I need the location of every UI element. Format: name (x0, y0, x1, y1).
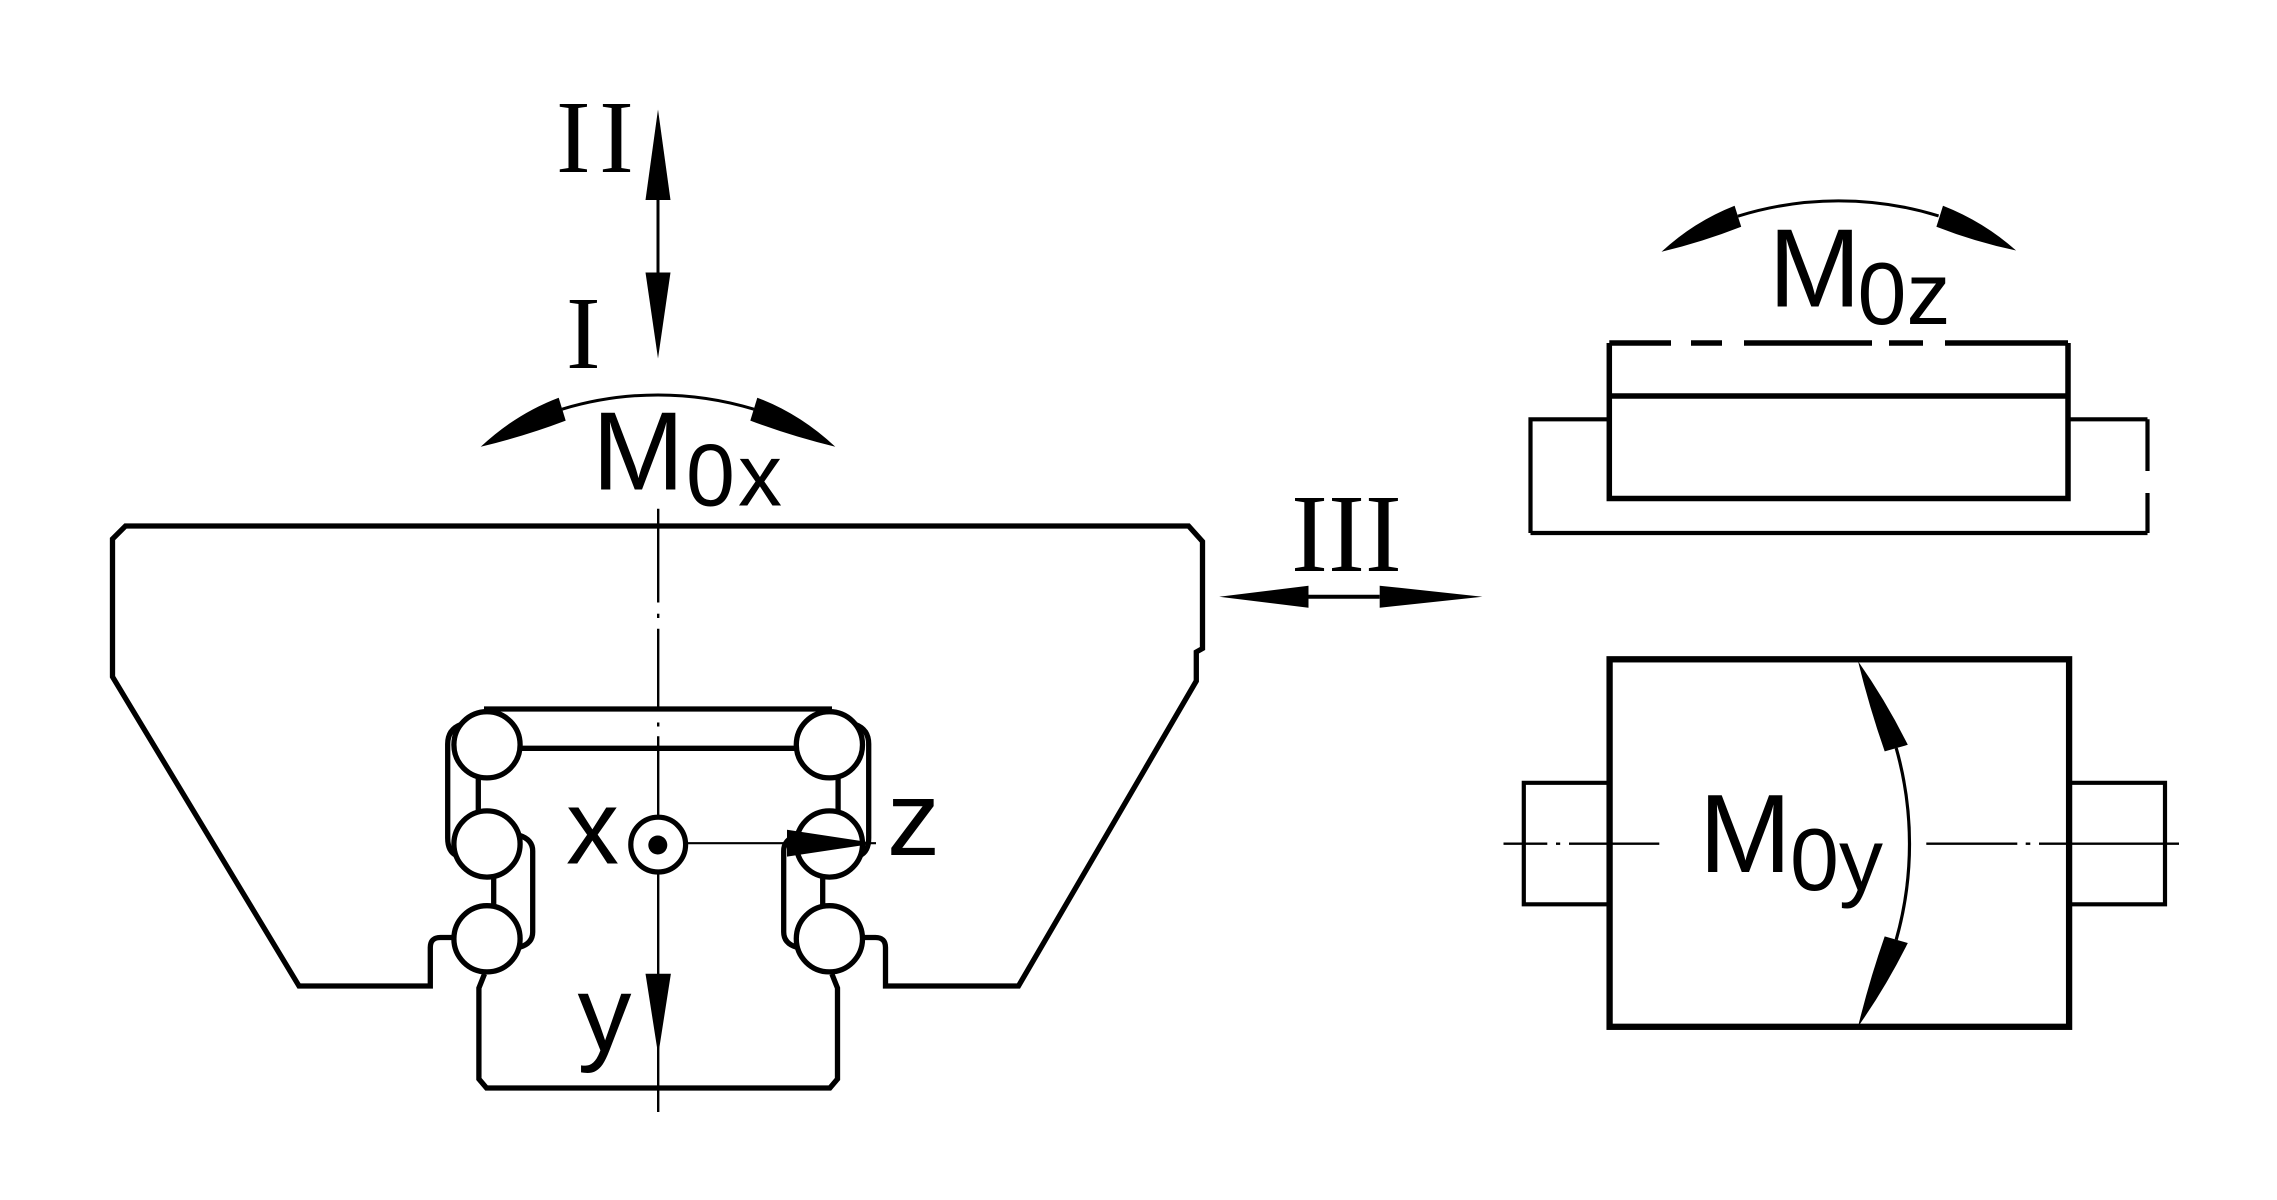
M0y arc bottom head (1858, 936, 1908, 1026)
arrow III right head (1380, 586, 1483, 608)
left groove line between lower balls (491, 878, 496, 906)
carriage side view body (1610, 659, 2070, 1027)
ball top-left (454, 712, 520, 778)
right raceway outer boundary (855, 725, 868, 856)
y axis arrow line (657, 874, 659, 1112)
svg-text:I: I (566, 276, 601, 391)
y axis arrowhead (646, 974, 671, 1055)
svg-text:y: y (578, 953, 632, 1074)
arrow II bottom head (646, 273, 671, 359)
svg-text:0z: 0z (1858, 244, 1951, 343)
carriage cavity top line (484, 706, 832, 711)
ball middle-left (454, 811, 520, 877)
arrow III line (1309, 595, 1380, 599)
svg-text:M: M (592, 390, 684, 514)
svg-text:M: M (1769, 207, 1861, 331)
rail top view bottom edge (1531, 531, 2148, 535)
z axis arrowhead (787, 830, 876, 857)
svg-text:II: II (556, 80, 642, 195)
M0z arc left head (1662, 206, 1742, 252)
svg-text:x: x (566, 768, 619, 886)
ball top-right (796, 712, 862, 778)
arrow II line (657, 200, 660, 273)
right claw line (784, 835, 797, 947)
rail top view left part (1531, 419, 1610, 533)
x axis symbol circle (631, 817, 686, 872)
M0z arc (1738, 201, 1939, 216)
rail right stub (2069, 783, 2165, 905)
right groove line between upper balls (835, 778, 840, 811)
carriage outline (113, 526, 1203, 986)
svg-text:0x: 0x (686, 426, 785, 525)
M0x arc left head (481, 398, 566, 447)
left raceway outer boundary (448, 725, 461, 856)
x axis symbol dot (648, 836, 667, 855)
right groove line between lower balls (820, 878, 825, 906)
svg-text:M: M (1699, 772, 1791, 896)
svg-text:0y: 0y (1790, 810, 1883, 909)
rail top surface line (521, 746, 796, 751)
rail left stub (1524, 783, 1610, 905)
carriage top view inner edge (1609, 393, 2068, 399)
left claw line (519, 835, 532, 947)
arrow III left head (1219, 586, 1308, 608)
vertical dash-dot centerline above (657, 509, 659, 815)
ball bottom-left (454, 906, 520, 972)
z axis arrow line (688, 842, 876, 844)
ball bottom-right (796, 906, 862, 972)
side view centerline (1504, 843, 2180, 845)
carriage top view hidden top edge dashes (1609, 340, 1671, 346)
left groove line between upper balls (476, 778, 481, 811)
rail lower body (479, 974, 838, 1088)
ball middle-right (796, 811, 862, 877)
arrow II top head (646, 110, 671, 201)
M0x arc (562, 395, 754, 409)
svg-text:z: z (887, 760, 940, 878)
M0z arc right head (1936, 206, 2016, 251)
carriage top view body (1609, 343, 2068, 499)
M0y arc (1896, 748, 1909, 940)
svg-text:III: III (1291, 473, 1402, 596)
M0y arc top head (1858, 661, 1908, 751)
rail top view right end dashes (2145, 419, 2149, 471)
M0x arc right head (750, 398, 835, 447)
rail top view right part (2068, 417, 2148, 421)
